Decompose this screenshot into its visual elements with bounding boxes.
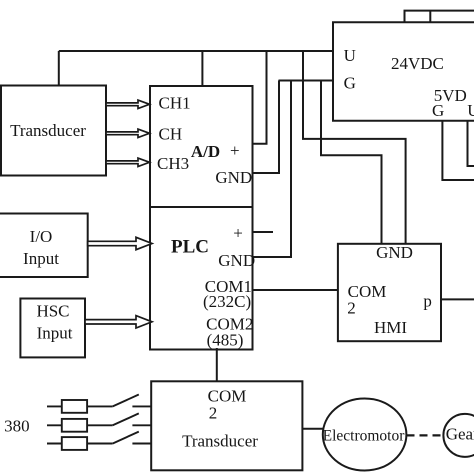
transducer box (analog input transducer) bbox=[1, 86, 106, 176]
svg-text:2: 2 bbox=[347, 298, 356, 317]
wire: drop to transducer top bbox=[58, 51, 60, 86]
three-phase fuse-switch rows bbox=[47, 395, 151, 450]
24VDC power supply box bbox=[333, 22, 474, 121]
HSC Input box bbox=[20, 299, 85, 358]
svg-text:PLC: PLC bbox=[171, 236, 209, 257]
switch blade S1 bbox=[113, 395, 139, 407]
switch blade S3 bbox=[113, 432, 139, 444]
24VDC top terminal block bbox=[405, 11, 474, 23]
fuse F2 bbox=[62, 419, 87, 432]
svg-text:CH1: CH1 bbox=[159, 94, 191, 113]
wire: drop to A/D top bbox=[201, 51, 203, 86]
svg-text:GND: GND bbox=[218, 251, 255, 270]
fuse F1 bbox=[62, 400, 87, 413]
arrow I/O input to PLC bbox=[88, 237, 152, 249]
svg-text:2: 2 bbox=[209, 404, 218, 423]
svg-text:A/D: A/D bbox=[191, 142, 220, 161]
svg-text:+: + bbox=[233, 224, 243, 243]
A/D module box U1 bbox=[150, 86, 253, 207]
hollow signal arrows bbox=[85, 100, 152, 328]
svg-text:Input: Input bbox=[23, 249, 59, 268]
svg-text:(232C): (232C) bbox=[203, 292, 251, 311]
svg-text:I/O: I/O bbox=[30, 227, 53, 246]
gear (reducer) bbox=[443, 414, 474, 457]
wire: PLC COM1 to HMI COM2 bbox=[253, 289, 338, 291]
arrow transducer to CH1 bbox=[106, 100, 150, 108]
HMI box bbox=[338, 244, 441, 341]
svg-text:(485): (485) bbox=[207, 331, 244, 350]
wire: PLC GND pin to ground rail bbox=[253, 81, 292, 258]
svg-text:GND: GND bbox=[376, 243, 413, 262]
arrow transducer to CH3 bbox=[106, 158, 150, 166]
arrow transducer to CH bbox=[106, 129, 150, 137]
wire: A/D GND pin to ground rail bbox=[253, 81, 280, 174]
switch blade S2 bbox=[113, 413, 139, 425]
phase L1 wire bbox=[47, 405, 151, 407]
wire: PLC plus pin stub bbox=[253, 231, 274, 233]
svg-text:G: G bbox=[344, 73, 356, 92]
svg-text:GND: GND bbox=[215, 168, 252, 187]
I/O Input box bbox=[0, 214, 88, 278]
wire: 24V branch down to HMI supply bbox=[303, 51, 406, 244]
svg-text:U: U bbox=[344, 46, 356, 65]
svg-text:Input: Input bbox=[37, 323, 73, 342]
wire: dashed shaft electromotor to gear bbox=[407, 434, 444, 436]
wire: ground branch down to HMI supply bbox=[321, 81, 382, 244]
electromotor M1 bbox=[323, 399, 407, 471]
svg-text:380: 380 bbox=[4, 416, 30, 435]
svg-text:CH3: CH3 bbox=[157, 154, 189, 173]
wire: A/D plus pin to 24V rail bbox=[253, 51, 267, 144]
svg-text:Transducer: Transducer bbox=[10, 121, 86, 140]
wire: ground rail to G pin bbox=[279, 80, 334, 82]
svg-text:Gear: Gear bbox=[446, 425, 474, 444]
bottom transducer (frequency converter) box bbox=[151, 381, 302, 470]
wire: top 24V rail from transducer to U pin bbox=[59, 50, 333, 52]
svg-text:Electromotor: Electromotor bbox=[323, 428, 406, 445]
wire: HMI p pin to right edge bbox=[441, 298, 474, 300]
svg-text:CH: CH bbox=[159, 124, 183, 143]
wire: PLC COM2 down to bottom transducer bbox=[216, 348, 218, 381]
svg-text:24VDC: 24VDC bbox=[391, 54, 444, 73]
wire: 5VD G pin out bbox=[442, 121, 474, 180]
arrow HSC input to PLC bbox=[85, 316, 152, 328]
svg-text:p: p bbox=[423, 292, 432, 311]
phase L3 wire bbox=[47, 443, 151, 445]
phase L2 wire bbox=[47, 424, 151, 426]
wire: bottom transducer to electromotor bbox=[302, 428, 324, 430]
fuse F3 bbox=[62, 437, 87, 450]
svg-text:Transducer: Transducer bbox=[182, 432, 258, 451]
svg-text:+: + bbox=[230, 141, 240, 160]
wire: 5VD U pin out bbox=[468, 121, 474, 166]
svg-text:HMI: HMI bbox=[374, 318, 407, 337]
PLC box U2 bbox=[150, 207, 253, 350]
svg-text:U: U bbox=[467, 101, 474, 120]
svg-text:G: G bbox=[432, 101, 444, 120]
svg-text:HSC: HSC bbox=[36, 302, 69, 321]
